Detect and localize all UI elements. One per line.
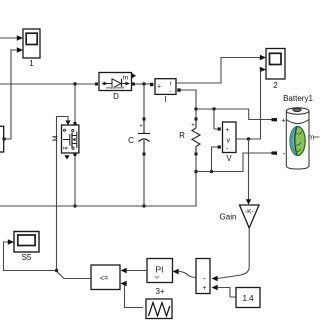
- svg-text:<=: <=: [100, 274, 109, 283]
- svg-text:+: +: [191, 123, 195, 129]
- voltage measurement V: [218, 122, 236, 163]
- svg-text:-: -: [203, 274, 206, 283]
- svg-text:+: +: [202, 285, 206, 292]
- node capacitor/bus: [142, 204, 145, 207]
- wire PI output to comparator: [127, 270, 147, 272]
- node gain tap: [247, 137, 250, 140]
- sawtooth repeating sequence: [146, 299, 172, 319]
- wire V+ tap: [214, 109, 218, 129]
- scope 2: [266, 49, 285, 91]
- controller PI: [147, 259, 173, 297]
- svg-text:+: +: [225, 127, 229, 134]
- scope S1: [23, 29, 40, 68]
- node capacitor junction: [142, 82, 145, 85]
- wire 1.4 to sum plus: [218, 288, 236, 298]
- mosfet m port arrow (unconnected): [64, 155, 69, 159]
- node gate junction: [55, 269, 58, 272]
- svg-text:m: m: [123, 75, 128, 82]
- wire gain input: [248, 139, 250, 200]
- wire battery minus loop: [196, 153, 273, 172]
- wire top bus to diode: [0, 83, 96, 85]
- battery leaf icon: [290, 126, 305, 155]
- svg-text:D: D: [113, 92, 119, 101]
- wire sum output to PI: [179, 272, 196, 278]
- svg-text:3+: 3+: [155, 287, 164, 296]
- gain block -K-: [220, 205, 259, 228]
- wire left-block to scope1 input2: [4, 50, 17, 139]
- svg-text:S5: S5: [22, 253, 32, 262]
- node V- tap: [210, 170, 213, 173]
- node V+ tap: [212, 107, 215, 110]
- svg-text:2: 2: [273, 81, 278, 90]
- node R bottom junction: [194, 170, 197, 173]
- svg-text:V: V: [226, 154, 232, 163]
- svg-text:PI: PI: [155, 265, 163, 275]
- wire diode to current measure: [135, 83, 151, 85]
- node junction bus/mosfet: [73, 82, 76, 85]
- svg-text:-K-: -K-: [245, 209, 254, 216]
- wire mosfet source to bottom bus: [74, 156, 76, 206]
- svg-text:I: I: [164, 95, 166, 104]
- svg-text:1: 1: [29, 59, 34, 68]
- capacitor C: [128, 84, 150, 206]
- svg-text:C: C: [128, 136, 134, 145]
- diode D: [95, 73, 136, 102]
- transistor M (MOSFET block): [53, 125, 79, 160]
- wire R junction to battery plus: [196, 109, 273, 120]
- svg-text:R: R: [179, 131, 185, 140]
- battery Battery1: [271, 94, 319, 169]
- svg-text:Battery1: Battery1: [283, 94, 313, 103]
- wire gate branch to scope S5: [4, 242, 57, 271]
- svg-text:M: M: [53, 135, 60, 141]
- svg-text:m: m: [308, 133, 314, 142]
- svg-text:+: +: [139, 124, 143, 130]
- svg-text:-: -: [170, 88, 172, 95]
- relational operator <=: [91, 265, 120, 290]
- svg-text:+: +: [157, 84, 161, 91]
- constant 1.4: [236, 288, 260, 308]
- sum block: [196, 259, 210, 294]
- wire mosfet drain: [74, 84, 76, 122]
- wire V output to scope2 input2: [236, 70, 262, 139]
- svg-text:1.4: 1.4: [242, 294, 254, 303]
- svg-text:-: -: [283, 149, 286, 158]
- svg-text:Gain: Gain: [220, 213, 237, 222]
- svg-text:i: i: [170, 82, 171, 88]
- scope S5: [14, 232, 39, 263]
- wire V- tap: [212, 147, 218, 172]
- wire scope1 input1 from left edge: [0, 37, 18, 39]
- current measurement I: [150, 79, 181, 104]
- wire R bottom to bus: [0, 155, 196, 206]
- node source/bus: [73, 204, 76, 207]
- battery ports: [274, 118, 277, 121]
- wire mosfet gate from comparator: [57, 117, 92, 279]
- resistor R: [179, 118, 200, 156]
- svg-text:v: v: [227, 138, 231, 145]
- svg-text:+: +: [281, 118, 285, 125]
- node R top junction: [194, 107, 197, 110]
- wire I minus port down to resistor: [181, 90, 197, 118]
- wire sawtooth to comparator: [125, 284, 144, 308]
- mosfet inner symbol: [63, 132, 77, 149]
- wire i signal to scope2: [176, 58, 261, 84]
- wire gain output to sum minus: [218, 228, 250, 279]
- source block cropped at left edge: [0, 126, 6, 152]
